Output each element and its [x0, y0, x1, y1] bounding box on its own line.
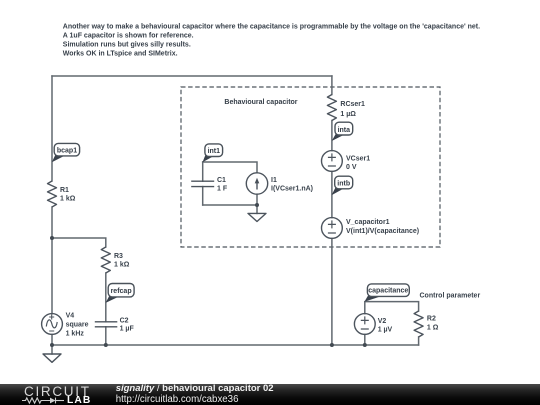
svg-text:int1: int1 [208, 148, 221, 155]
svg-text:C2: C2 [120, 318, 129, 325]
svg-text:V_capacitor1: V_capacitor1 [346, 219, 390, 226]
svg-text:intb: intb [337, 181, 350, 188]
svg-text:1 µΩ: 1 µΩ [340, 111, 356, 118]
svg-text:1 Ω: 1 Ω [427, 325, 439, 332]
svg-text:refcap: refcap [111, 288, 132, 295]
svg-text:bcap1: bcap1 [57, 148, 77, 155]
svg-text:R2: R2 [427, 316, 436, 323]
svg-text:VCser1: VCser1 [346, 155, 370, 162]
svg-text:1 F: 1 F [217, 186, 228, 193]
svg-text:1 kΩ: 1 kΩ [60, 196, 76, 203]
svg-text:Simulation runs but gives sill: Simulation runs but gives silly results. [63, 42, 191, 49]
svg-text:capacitance: capacitance [368, 287, 408, 294]
svg-text:square: square [66, 322, 89, 329]
svg-text:V4: V4 [66, 313, 75, 320]
svg-text:1 kHz: 1 kHz [66, 331, 85, 338]
svg-text:0 V: 0 V [346, 164, 357, 171]
svg-text:R1: R1 [60, 187, 69, 194]
svg-text:1 µV: 1 µV [378, 327, 393, 334]
svg-text:A 1uF capacitor is shown for r: A 1uF capacitor is shown for reference. [63, 32, 194, 39]
svg-text:1 kΩ: 1 kΩ [114, 262, 130, 269]
svg-text:RCser1: RCser1 [340, 101, 365, 108]
svg-text:Works OK in LTspice and SIMetr: Works OK in LTspice and SIMetrix. [63, 50, 178, 57]
svg-text:I1: I1 [271, 177, 277, 184]
svg-text:C1: C1 [217, 177, 226, 184]
svg-text:Control parameter: Control parameter [420, 293, 481, 300]
svg-text:V(int1)/V(capacitance): V(int1)/V(capacitance) [346, 228, 419, 235]
svg-text:inta: inta [338, 127, 351, 134]
svg-text:Behavioural capacitor: Behavioural capacitor [224, 99, 297, 106]
svg-text:Another way to make a behaviou: Another way to make a behavioural capaci… [63, 23, 480, 30]
svg-text:V2: V2 [378, 318, 387, 325]
svg-text:I(VCser1.nA): I(VCser1.nA) [271, 186, 313, 193]
svg-text:R3: R3 [114, 253, 123, 260]
svg-text:1 µF: 1 µF [120, 326, 135, 333]
